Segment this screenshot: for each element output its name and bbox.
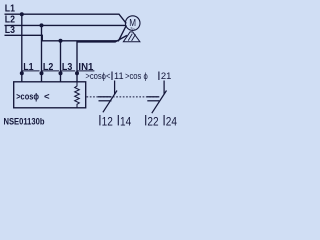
contact K2 fixed contact lower <box>147 100 159 102</box>
wire L1 drop to relay terminal <box>21 14 23 82</box>
svg-text:3~: 3~ <box>130 27 135 32</box>
svg-text:21: 21 <box>161 71 172 81</box>
terminal label underline L2 <box>42 70 60 72</box>
terminal tick 24 <box>163 115 165 125</box>
terminal label underline IN1 <box>77 70 94 72</box>
pump load symbol under motor <box>123 32 139 42</box>
svg-text:L1: L1 <box>23 62 34 73</box>
svg-text:12: 12 <box>102 114 113 128</box>
contact K1 movable arm <box>103 91 117 113</box>
contact K1 common 11 lead <box>114 81 116 95</box>
node L2 tap <box>40 23 44 27</box>
svg-text:11: 11 <box>114 71 124 81</box>
svg-text:L3: L3 <box>5 24 15 36</box>
terminal tick 21 <box>158 72 160 81</box>
svg-text:<: < <box>44 92 50 103</box>
wire IN1 from motor load to relay terminal <box>77 35 127 81</box>
wire L2 drop to relay terminal <box>41 25 43 81</box>
terminal label underline L3 <box>61 70 76 72</box>
svg-text:NSE01130b: NSE01130b <box>4 117 45 128</box>
terminal node IN1 <box>75 71 79 75</box>
terminal tick 12 <box>99 115 101 125</box>
resistor R1 (PTC) zigzag <box>75 82 80 108</box>
contact K2 common 21 lead <box>163 81 165 95</box>
terminal node L1 <box>20 71 24 75</box>
wire L3 rail <box>5 25 127 40</box>
svg-text:14: 14 <box>120 114 131 128</box>
terminal tick 11 <box>111 72 113 81</box>
terminal tick 22 <box>145 115 147 125</box>
svg-text:L3: L3 <box>62 62 73 73</box>
contact K2 movable arm <box>152 91 167 114</box>
svg-text:>cos ϕ: >cos ϕ <box>125 71 148 81</box>
wire L2 rail <box>5 24 126 26</box>
svg-text:L2: L2 <box>43 62 54 73</box>
svg-text:22: 22 <box>147 114 158 128</box>
svg-text:>cosϕ<: >cosϕ< <box>85 71 110 81</box>
motor U1 circle <box>125 16 140 31</box>
terminal node L2 <box>40 71 44 75</box>
dashed mechanical link <box>87 96 160 98</box>
relay box U2 <box>14 82 86 108</box>
terminal node L3 <box>59 71 63 75</box>
node L1 tap <box>20 12 24 16</box>
wire L1 rail <box>5 14 127 23</box>
svg-text:>cosϕ: >cosϕ <box>16 92 39 103</box>
contact K1 fixed contact lower <box>99 100 112 102</box>
svg-text:24: 24 <box>166 114 177 128</box>
node L3 tap <box>59 39 63 43</box>
contact K1 fixed contact upper <box>98 96 112 98</box>
terminal label underline L1 <box>22 70 40 72</box>
contact K2 fixed contact upper <box>147 96 160 98</box>
terminal tick 14 <box>117 115 119 125</box>
wire L3 drop to relay terminal <box>60 41 62 82</box>
